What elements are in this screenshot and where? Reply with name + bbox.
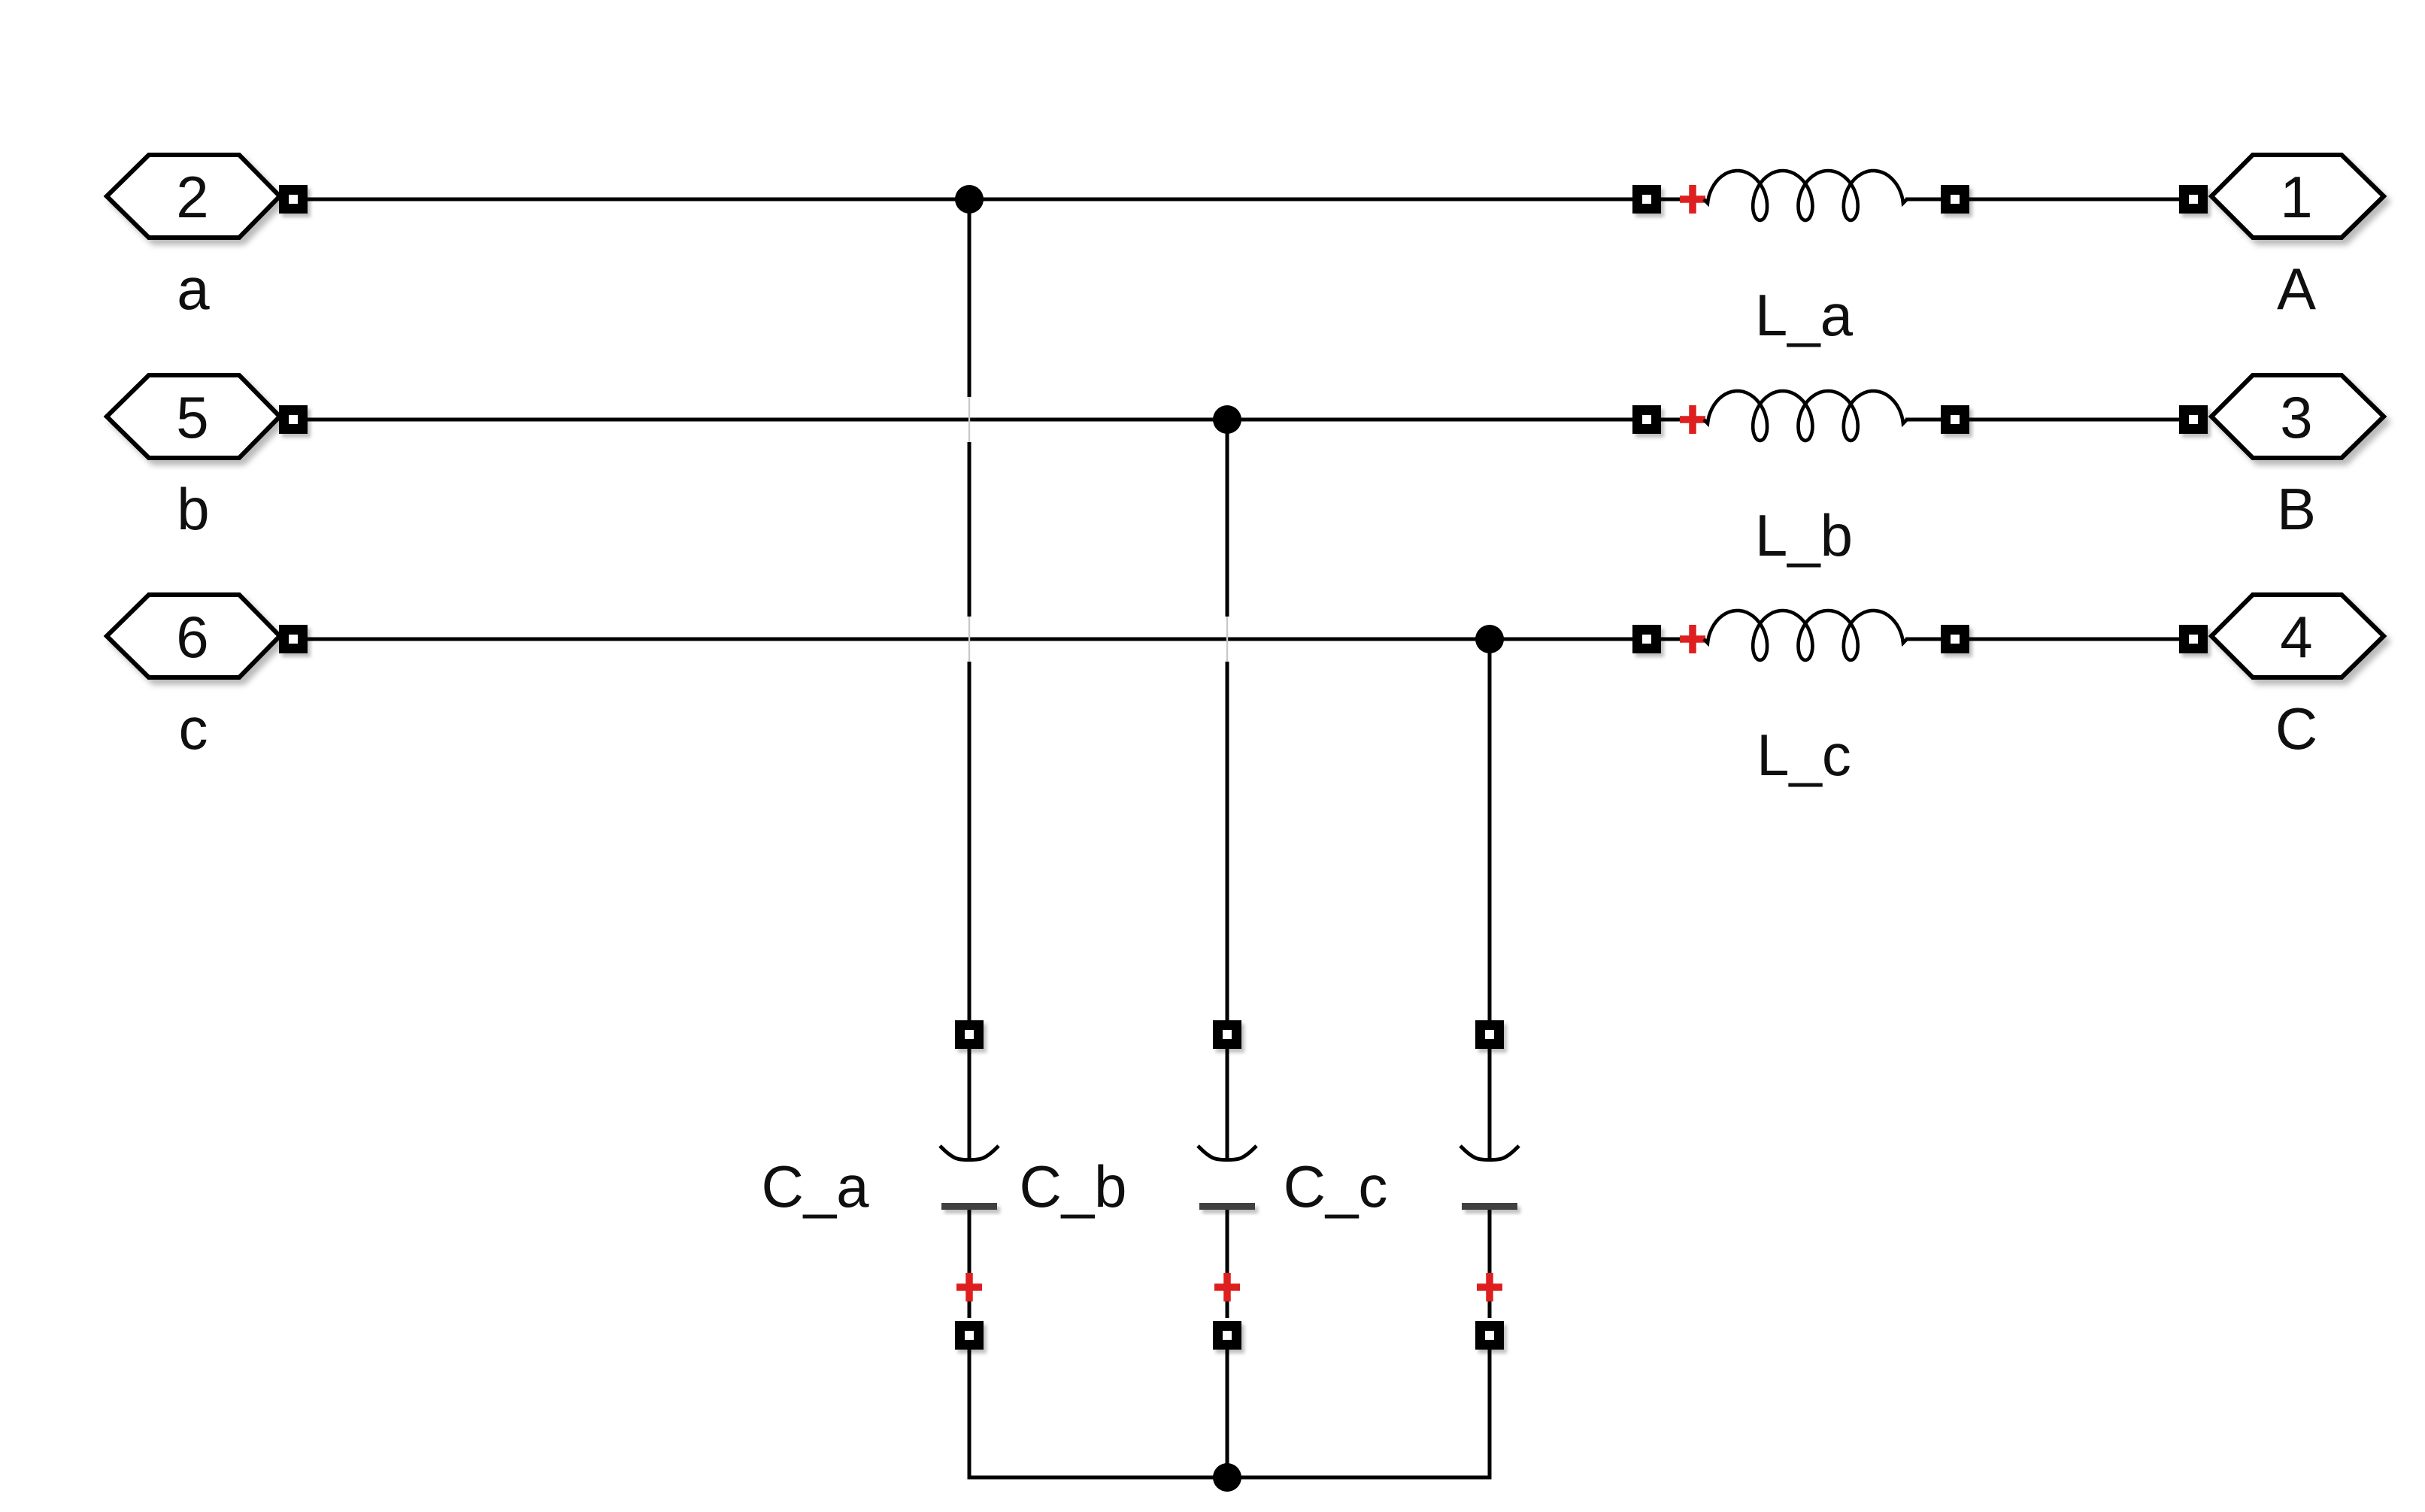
svg-text:6: 6 [176,604,208,670]
bottom bus wire [969,1474,1490,1477]
svg-text:2: 2 [176,164,208,230]
inductor L_c [1632,611,1969,660]
svg-text:5: 5 [176,384,208,450]
wire row 1: hexagon 2 to inductor L_a [308,198,1632,201]
wire capacitor C_c to bus [1488,1350,1492,1476]
port square at hexagon 2 [279,185,308,214]
port square at hexagon 5 [279,405,308,434]
svg-text:3: 3 [2280,384,2312,450]
svg-text:b: b [177,476,209,542]
port square at hexagon 1 [2179,185,2208,214]
vertical wire node a to C_a (gaps at crossings) [968,199,972,397]
port block 5 (left hexagon) [107,375,280,458]
svg-text:C_a: C_a [761,1153,869,1220]
wire capacitor C_a to bus [968,1350,972,1476]
svg-text:a: a [177,256,210,322]
wire row 3: inductor L_c to hexagon 4 [1969,638,2180,641]
junction node at bus [1213,1463,1241,1492]
svg-text:B: B [2277,476,2316,542]
svg-text:4: 4 [2280,604,2312,670]
inductor L_a [1632,171,1969,220]
svg-text:C_c: C_c [1284,1153,1388,1220]
junction node row 1 [955,185,984,214]
svg-text:c: c [179,695,208,762]
wire row 2: hexagon 5 to inductor L_b [308,418,1632,422]
port block 2 (left hexagon) [107,155,280,238]
wire row 3: hexagon 6 to inductor L_c [308,638,1632,641]
svg-text:A: A [2277,256,2316,322]
wire row 2: inductor L_b to hexagon 3 [1969,418,2180,422]
svg-text:C: C [2275,695,2317,762]
wire row 1: inductor L_a to hexagon 1 [1969,198,2180,201]
vertical wire node b to C_b (gap at crossing) [1226,420,1229,617]
junction node row 3 [1475,625,1504,653]
port block 6 (left hexagon) [107,595,280,677]
port square at hexagon 4 [2179,625,2208,653]
vertical wire node c to C_c [1488,639,1492,1020]
port square at hexagon 3 [2179,405,2208,434]
wire capacitor C_b to bus [1226,1350,1229,1477]
svg-text:C_b: C_b [1019,1153,1126,1220]
inductor L_b [1632,391,1969,441]
capacitor C_a [940,1020,999,1350]
svg-text:L_a: L_a [1755,282,1854,348]
capacitor C_b [1198,1020,1256,1350]
port block 3 (right hexagon) [2211,375,2384,458]
svg-text:L_b: L_b [1755,502,1853,568]
port block 1 (right hexagon) [2211,155,2384,238]
svg-text:L_c: L_c [1757,722,1851,788]
junction node row 2 [1213,405,1241,434]
port block 4 (right hexagon) [2211,595,2384,677]
capacitor C_c [1460,1020,1519,1350]
port square at hexagon 6 [279,625,308,653]
svg-text:1: 1 [2280,164,2312,230]
